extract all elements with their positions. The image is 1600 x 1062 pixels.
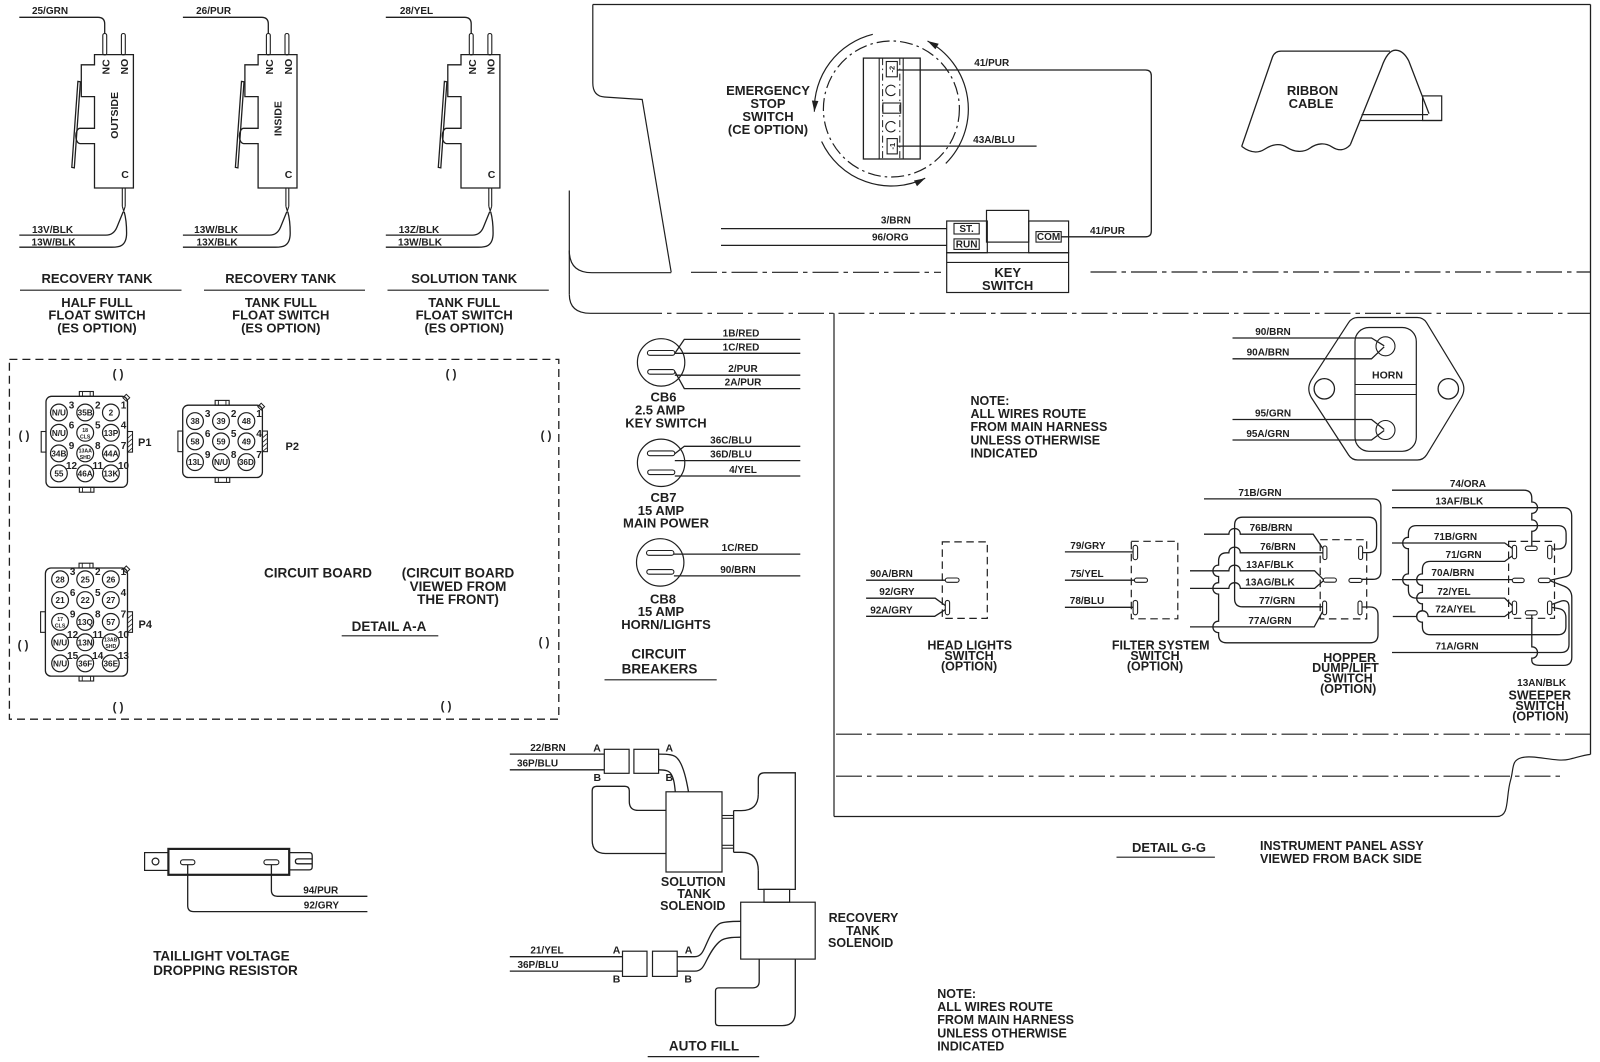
svg-text:48: 48 (242, 417, 252, 426)
svg-text:2: 2 (95, 567, 101, 578)
contact symbol lower (886, 122, 896, 132)
P4 pin 6 (21) (52, 588, 76, 609)
svg-text:1C/RED: 1C/RED (723, 342, 760, 353)
svg-text:28: 28 (56, 575, 66, 584)
filter system switch terminal top (1133, 545, 1138, 559)
svg-text:34B: 34B (51, 449, 66, 458)
terminal COM (1036, 232, 1061, 244)
svg-text:2: 2 (231, 409, 237, 420)
svg-text:41/PUR: 41/PUR (974, 58, 1010, 69)
rotation arrow arc upper-left (812, 34, 873, 111)
wire 13AG/BLK to hopper switch mid-left (1190, 577, 1323, 588)
caption HOPPER DUMP/LIFT SWITCH (OPTION) (1312, 651, 1379, 696)
P2 pin 9 (13L) (187, 450, 211, 471)
svg-text:MAIN POWER: MAIN POWER (623, 516, 710, 531)
svg-text:77A/GRN: 77A/GRN (1248, 616, 1291, 627)
svg-text:10: 10 (118, 630, 130, 641)
svg-text:N/U: N/U (214, 458, 228, 467)
svg-text:76B/BRN: 76B/BRN (1250, 523, 1293, 534)
P1 pin 11 (46A) (77, 461, 104, 482)
svg-text:38: 38 (190, 417, 200, 426)
svg-text:36F: 36F (78, 659, 92, 668)
svg-text:INSTRUMENT PANEL ASSY: INSTRUMENT PANEL ASSY (1260, 839, 1424, 853)
note all wires route from main harness (lower) (937, 987, 1074, 1054)
svg-text:44A: 44A (103, 449, 118, 458)
float switch body (RECOVERY TANK TANK FULL) (183, 17, 297, 247)
P4 pin 12 (N/U) (52, 630, 79, 651)
svg-text:49: 49 (242, 437, 252, 446)
svg-text:59: 59 (216, 437, 226, 446)
wire 72A/YEL to sweeper switch bottom-left (1393, 604, 1513, 616)
svg-text:(OPTION): (OPTION) (1320, 682, 1376, 696)
wire 71A/GRN to sweeper switch bottom-right (1392, 601, 1569, 653)
wire 71B/GRN to sweeper switch top-left (1392, 532, 1512, 548)
svg-text:ALL WIRES ROUTE: ALL WIRES ROUTE (971, 407, 1087, 421)
svg-text:12: 12 (66, 461, 78, 472)
svg-text:P2: P2 (286, 441, 299, 453)
svg-text:ST.: ST. (959, 224, 974, 235)
wire 96/ORG to key switch RUN (721, 233, 947, 246)
panel section line (dash-dot) lower (636, 312, 1591, 314)
wire 90/BRN to horn (1233, 327, 1385, 346)
recovery solenoid drain pipe (716, 959, 796, 1026)
svg-text:FROM MAIN HARNESS: FROM MAIN HARNESS (971, 420, 1108, 434)
hopper switch terminal bottom-left (1323, 601, 1327, 615)
svg-text:FROM MAIN HARNESS: FROM MAIN HARNESS (937, 1013, 1074, 1027)
svg-text:2A/PUR: 2A/PUR (725, 378, 762, 389)
svg-text:94/PUR: 94/PUR (303, 885, 339, 896)
svg-text:28/YEL: 28/YEL (400, 6, 433, 17)
caption DETAIL A-A (342, 619, 439, 636)
svg-text:92/GRY: 92/GRY (304, 901, 340, 912)
wire 94/PUR from resistor (271, 865, 367, 897)
svg-text:36E: 36E (104, 659, 119, 668)
wire A to recovery tank solenoid (677, 921, 741, 956)
wire 36D/BLU (675, 450, 801, 461)
key switch body (947, 210, 1069, 292)
svg-text:13AA: 13AA (79, 449, 93, 455)
P4 pin 10 (13AB SHD) (102, 630, 129, 651)
resistor slot terminal left (181, 860, 195, 865)
float switch body (RECOVERY TANK HALF FULL) (19, 17, 133, 247)
svg-text:N/U: N/U (53, 659, 67, 668)
svg-text:71A/GRN: 71A/GRN (1435, 642, 1478, 653)
P1 pin 12 (55) (51, 461, 78, 482)
caption SWEEPER SWITCH (OPTION) (1509, 689, 1572, 724)
svg-text:-2: -2 (887, 66, 896, 73)
head lights switch terminal lower (945, 600, 949, 614)
float switch body (SOLUTION TANK TANK FULL) (386, 17, 500, 247)
svg-text:C: C (285, 169, 293, 181)
svg-text:13AB: 13AB (104, 638, 118, 644)
svg-text:13K: 13K (103, 469, 118, 478)
hopper switch terminal mid-right (1349, 578, 1362, 582)
svg-text:( ): ( ) (539, 637, 550, 649)
svg-text:22/BRN: 22/BRN (530, 743, 566, 754)
svg-text:43A/BLU: 43A/BLU (973, 135, 1015, 146)
caption (CIRCUIT BOARD VIEWED FROM THE FRONT) (402, 566, 515, 608)
head lights switch dashed body (942, 542, 987, 619)
svg-text:13Q: 13Q (77, 618, 93, 627)
svg-text:2/PUR: 2/PUR (728, 364, 758, 375)
svg-text:A: A (685, 944, 693, 956)
svg-text:3: 3 (70, 567, 76, 578)
svg-text:72/YEL: 72/YEL (1437, 587, 1470, 598)
horn divider band (1355, 385, 1416, 395)
svg-text:22: 22 (81, 596, 91, 605)
wire 1C/RED (674, 543, 800, 554)
svg-text:(OPTION): (OPTION) (941, 659, 997, 673)
svg-text:(OPTION): (OPTION) (1127, 659, 1183, 673)
svg-text:14: 14 (92, 651, 104, 662)
svg-text:90/BRN: 90/BRN (1255, 327, 1291, 338)
svg-text:SWITCH: SWITCH (982, 278, 1033, 293)
svg-text:1: 1 (256, 409, 262, 420)
circuit breaker CB7 body (637, 439, 684, 486)
horn inner housing (1355, 328, 1416, 452)
svg-text:RECOVERY TANK: RECOVERY TANK (42, 271, 154, 286)
svg-text:58: 58 (190, 437, 200, 446)
sweeper switch terminal mid-right (1538, 578, 1550, 582)
sweeper switch terminal bottom-right (1548, 601, 1552, 615)
svg-text:9: 9 (205, 450, 211, 461)
svg-text:18: 18 (82, 428, 88, 434)
resistor mounting tab (145, 853, 169, 871)
circuit breaker CB6 body (637, 339, 684, 386)
svg-text:SHD: SHD (80, 455, 91, 461)
svg-text:13N: 13N (78, 638, 93, 647)
svg-text:(ES OPTION): (ES OPTION) (424, 321, 503, 336)
svg-text:27: 27 (106, 596, 116, 605)
caption TAILLIGHT VOLTAGE DROPPING RESISTOR (153, 949, 298, 979)
svg-text:77/GRN: 77/GRN (1259, 596, 1295, 607)
svg-text:CLS: CLS (55, 624, 66, 630)
svg-text:46A: 46A (78, 469, 93, 478)
svg-text:SOLENOID: SOLENOID (660, 899, 725, 913)
svg-text:NC: NC (264, 59, 276, 75)
svg-text:N/U: N/U (52, 429, 66, 438)
wire B to recovery tank solenoid (677, 937, 741, 971)
svg-text:6: 6 (69, 421, 75, 432)
wire 1C/RED (675, 342, 801, 353)
lower panel bottom edge with break line (834, 754, 1591, 816)
wire jumper hopper top-right to 77/GRN bottom-left (1235, 517, 1377, 607)
wire 36P/BLU to auto fill connector lower (510, 960, 623, 971)
auto fill connector plug lower (623, 951, 648, 976)
svg-text:DETAIL A-A: DETAIL A-A (352, 619, 427, 634)
svg-text:SOLENOID: SOLENOID (828, 936, 893, 950)
horn terminal upper (1376, 337, 1395, 356)
rotation arrow arc bottom (822, 142, 926, 187)
svg-text:2: 2 (95, 400, 101, 411)
sweeper switch dashed body (1509, 541, 1555, 618)
P1 pin 7 (44A) (103, 441, 127, 462)
svg-text:35B: 35B (78, 409, 93, 418)
svg-text:NOTE:: NOTE: (937, 987, 976, 1001)
P4 pin 15 (N/U) (52, 651, 79, 672)
terminal -2 box (886, 62, 897, 77)
svg-text:CLS: CLS (80, 434, 91, 440)
P2 pin 3 (38) (187, 409, 211, 430)
emergency stop switch dash-dot circle (823, 41, 959, 177)
hopper dump/lift switch dashed body (1320, 540, 1367, 619)
wire 92/GRY to head lights switch (866, 587, 945, 605)
lower panel section line (dash-dot) at 734 (836, 733, 1591, 735)
wire 13AN/BLK jumper sweeper mid-right to bottom-center (1517, 581, 1572, 689)
wire 74/ORA to sweeper switch top-center (1392, 479, 1538, 546)
instrument panel top border (593, 4, 1591, 6)
svg-text:( ): ( ) (113, 369, 124, 381)
svg-text:21/YEL: 21/YEL (530, 945, 563, 956)
wire 71/GRN jumper sweeper top-left to bottom-right (1417, 550, 1566, 635)
svg-text:P4: P4 (139, 619, 153, 631)
note all wires route from main harness (upper) (971, 394, 1108, 461)
svg-text:OUTSIDE: OUTSIDE (109, 92, 121, 139)
svg-text:UNLESS OTHERWISE: UNLESS OTHERWISE (937, 1026, 1067, 1040)
connector P2 body (178, 400, 268, 482)
svg-text:26: 26 (106, 575, 116, 584)
svg-text:13: 13 (118, 651, 130, 662)
svg-text:HORN: HORN (1372, 370, 1403, 382)
svg-text:8: 8 (231, 450, 237, 461)
instrument panel left lower contour (569, 191, 671, 314)
P2 pin 2 (39) (213, 409, 237, 430)
svg-text:4: 4 (121, 588, 127, 599)
svg-text:13P: 13P (104, 429, 119, 438)
mounting hole marks ( ) on detail border (18, 369, 552, 714)
svg-text:74/ORA: 74/ORA (1450, 479, 1486, 490)
svg-text:-1: -1 (888, 143, 897, 150)
wire jumper sweeper top-right to 72/YEL bottom-left (1403, 526, 1566, 606)
svg-text:B: B (594, 772, 602, 784)
svg-text:(ES OPTION): (ES OPTION) (57, 321, 136, 336)
wire 13AF/BLK to hopper switch mid-left (1190, 560, 1323, 580)
svg-text:92A/GRY: 92A/GRY (870, 605, 913, 616)
svg-text:6: 6 (70, 588, 76, 599)
svg-text:8: 8 (95, 441, 101, 452)
wire 13AF/BLK to sweeper switch mid-right (1392, 497, 1572, 581)
svg-text:DETAIL G-G: DETAIL G-G (1132, 840, 1206, 855)
filter system switch terminal middle (1134, 578, 1147, 582)
hopper switch terminal top-right (1359, 546, 1363, 560)
caption CIRCUIT BREAKERS (605, 647, 717, 680)
svg-text:36C/BLU: 36C/BLU (710, 435, 752, 446)
svg-text:CABLE: CABLE (1289, 96, 1334, 111)
svg-text:(ES OPTION): (ES OPTION) (241, 321, 320, 336)
svg-text:13AF/BLK: 13AF/BLK (1246, 560, 1295, 571)
wire 76B/BRN to hopper switch top-left (1204, 523, 1323, 548)
svg-text:70A/BRN: 70A/BRN (1431, 568, 1474, 579)
P2 pin 8 (N/U) (213, 450, 237, 471)
svg-text:13L: 13L (188, 458, 202, 467)
wire 3/BRN to key switch ST (721, 215, 947, 228)
svg-text:5: 5 (231, 429, 237, 440)
wire 75/YEL to filter system switch (1065, 569, 1135, 580)
wire 92/GRY from resistor (188, 865, 368, 912)
svg-text:( ): ( ) (113, 702, 124, 714)
svg-text:76/BRN: 76/BRN (1260, 542, 1296, 553)
P1 pin 4 (13P) (103, 421, 127, 442)
solution tank solenoid valve pipe (592, 786, 665, 853)
caption EMERGENCY STOP SWITCH (CE OPTION) (726, 83, 810, 137)
svg-text:THE FRONT): THE FRONT) (417, 592, 499, 607)
svg-text:C: C (488, 169, 496, 181)
svg-text:13X/BLK: 13X/BLK (197, 237, 239, 248)
wire B to solution tank solenoid (659, 770, 676, 792)
svg-text:ALL WIRES ROUTE: ALL WIRES ROUTE (937, 1000, 1053, 1014)
wire 76/BRN jumper hopper top-left to bottom-right (1213, 542, 1378, 643)
svg-text:13AG/BLK: 13AG/BLK (1245, 577, 1295, 588)
panel section line (dash-dot) upper (691, 271, 1591, 273)
svg-text:P1: P1 (138, 437, 151, 449)
P4 pin 13 (36E) (102, 651, 129, 672)
svg-text:(CE OPTION): (CE OPTION) (728, 122, 808, 137)
svg-text:4: 4 (121, 421, 127, 432)
svg-text:CIRCUIT BOARD: CIRCUIT BOARD (264, 566, 372, 581)
caption SOLUTION TANK SOLENOID (660, 875, 725, 913)
wire 90/BRN (674, 565, 800, 576)
wire 21/YEL to auto fill connector lower (510, 945, 623, 956)
svg-text:N/U: N/U (53, 638, 67, 647)
caption CB8 CB8 15 AMP HORN/LIGHTS (621, 591, 711, 632)
auto fill connector receptacle upper (634, 749, 659, 773)
terminal -1 box (887, 139, 897, 154)
svg-text:71/GRN: 71/GRN (1446, 550, 1482, 561)
pipe connector stub to recovery solenoid (764, 889, 790, 902)
terminal RUN (954, 239, 979, 251)
hopper switch terminal bottom-right (1358, 601, 1362, 615)
svg-text:B: B (684, 973, 692, 985)
connector P1 body (41, 392, 132, 493)
svg-text:55: 55 (54, 469, 64, 478)
wire 36P/BLU to auto fill connector (510, 759, 605, 770)
svg-text:( ): ( ) (18, 640, 29, 652)
svg-text:36P/BLU: 36P/BLU (517, 960, 558, 971)
instrument panel left upper contour with slant (593, 5, 671, 273)
svg-text:INDICATED: INDICATED (971, 447, 1038, 461)
svg-text:72A/YEL: 72A/YEL (1435, 604, 1476, 615)
svg-text:3: 3 (69, 400, 75, 411)
svg-text:NOTE:: NOTE: (971, 394, 1010, 408)
P4 pin 8 (13Q) (77, 610, 101, 631)
svg-text:( ): ( ) (19, 431, 30, 443)
svg-text:71B/GRN: 71B/GRN (1238, 488, 1281, 499)
svg-text:CIRCUIT: CIRCUIT (631, 647, 686, 662)
terminal ST. (954, 223, 979, 235)
svg-text:NO: NO (283, 59, 295, 75)
wire 95/GRN to horn (1233, 409, 1385, 430)
auto fill connector plug upper (604, 749, 629, 773)
svg-text:SOLUTION TANK: SOLUTION TANK (411, 271, 518, 286)
svg-text:71B/GRN: 71B/GRN (1434, 532, 1477, 543)
wire 70A/BRN to sweeper switch mid-left (1392, 568, 1512, 579)
svg-text:A: A (593, 742, 601, 754)
caption AUTO FILL (648, 1039, 760, 1057)
wire 90A/BRN to head lights switch (866, 569, 945, 580)
P2 pin 1 (48) (238, 409, 262, 430)
P4 pin 3 (28) (52, 567, 76, 588)
auto fill connector receptacle lower (653, 951, 678, 976)
svg-text:9: 9 (69, 441, 75, 452)
svg-text:95A/GRN: 95A/GRN (1246, 429, 1289, 440)
svg-text:1: 1 (121, 400, 127, 411)
caption HEAD LIGHTS SWITCH (OPTION) (927, 638, 1012, 673)
svg-text:AUTO FILL: AUTO FILL (669, 1039, 739, 1054)
svg-text:VIEWED FROM BACK SIDE: VIEWED FROM BACK SIDE (1260, 852, 1422, 866)
sweeper switch terminal top-center (1525, 546, 1537, 550)
svg-text:COM: COM (1037, 232, 1060, 243)
svg-text:DROPPING RESISTOR: DROPPING RESISTOR (153, 963, 298, 978)
rotation arrow arc right (928, 41, 969, 163)
svg-text:25/GRN: 25/GRN (32, 6, 68, 17)
contact symbol upper (886, 85, 896, 95)
sweeper switch terminal bottom-center (1525, 611, 1537, 615)
sweeper switch terminal bottom-left (1512, 601, 1516, 615)
tee pipe fitting (734, 773, 796, 890)
svg-text:7: 7 (256, 450, 262, 461)
wire 43A/BLU from emergency stop (897, 135, 1036, 146)
svg-text:UNLESS OTHERWISE: UNLESS OTHERWISE (971, 433, 1101, 447)
taillight voltage dropping resistor body (168, 849, 289, 875)
sweeper switch terminal top-right (1548, 545, 1552, 559)
lower panel section line (dash-dot) at 776 (836, 775, 1563, 777)
svg-text:13W/BLK: 13W/BLK (398, 237, 443, 248)
svg-text:NC: NC (467, 59, 479, 75)
svg-text:78/BLU: 78/BLU (1070, 596, 1104, 607)
svg-text:5: 5 (95, 421, 101, 432)
svg-text:13Z/BLK: 13Z/BLK (399, 225, 440, 236)
svg-text:26/PUR: 26/PUR (196, 6, 232, 17)
caption RECOVERY TANK SOLENOID (828, 911, 899, 950)
svg-text:36D: 36D (239, 458, 254, 467)
svg-text:90A/BRN: 90A/BRN (1247, 348, 1290, 359)
svg-text:( ): ( ) (441, 701, 452, 713)
connector P4 body (41, 563, 133, 681)
svg-text:90/BRN: 90/BRN (720, 565, 756, 576)
svg-text:92/GRY: 92/GRY (879, 587, 915, 598)
wire 79/GRY to filter system switch (1065, 541, 1133, 552)
svg-text:KEY SWITCH: KEY SWITCH (625, 415, 706, 430)
svg-text:96/ORG: 96/ORG (872, 233, 909, 244)
P1 pin 6 (N/U) (51, 421, 75, 442)
svg-text:7: 7 (121, 441, 127, 452)
P4 pin 11 (13N) (77, 630, 104, 651)
svg-text:RECOVERY TANK: RECOVERY TANK (225, 271, 337, 286)
svg-text:B: B (613, 973, 621, 985)
wire 41/PUR from emergency stop to key switch COM (897, 58, 1151, 237)
svg-text:1B/RED: 1B/RED (723, 328, 760, 339)
pipe stubs solution solenoid to tee (722, 816, 734, 849)
wire 2A/PUR (675, 371, 801, 388)
svg-text:( ): ( ) (446, 369, 457, 381)
filter system switch terminal bottom (1133, 600, 1138, 614)
P2 pin 7 (36D) (238, 450, 262, 471)
solution tank solenoid body (666, 792, 722, 872)
svg-text:1: 1 (121, 567, 127, 578)
head lights switch terminal upper (945, 578, 959, 582)
P4 pin 5 (22) (77, 588, 101, 609)
instrument panel right edge (1590, 5, 1592, 755)
wire 90A/BRN to horn (1233, 347, 1385, 359)
svg-text:NC: NC (100, 59, 112, 75)
svg-text:A: A (613, 944, 621, 956)
P4 pin 9 (17 CLS) (52, 610, 76, 631)
caption KEY SWITCH (982, 265, 1033, 293)
wire 78/BLU to filter system switch (1065, 596, 1133, 607)
caption CB6 CB6 2.5 AMP KEY SWITCH (625, 390, 706, 431)
center actuator rectangle (883, 103, 901, 113)
lower panel left edge (833, 313, 835, 816)
